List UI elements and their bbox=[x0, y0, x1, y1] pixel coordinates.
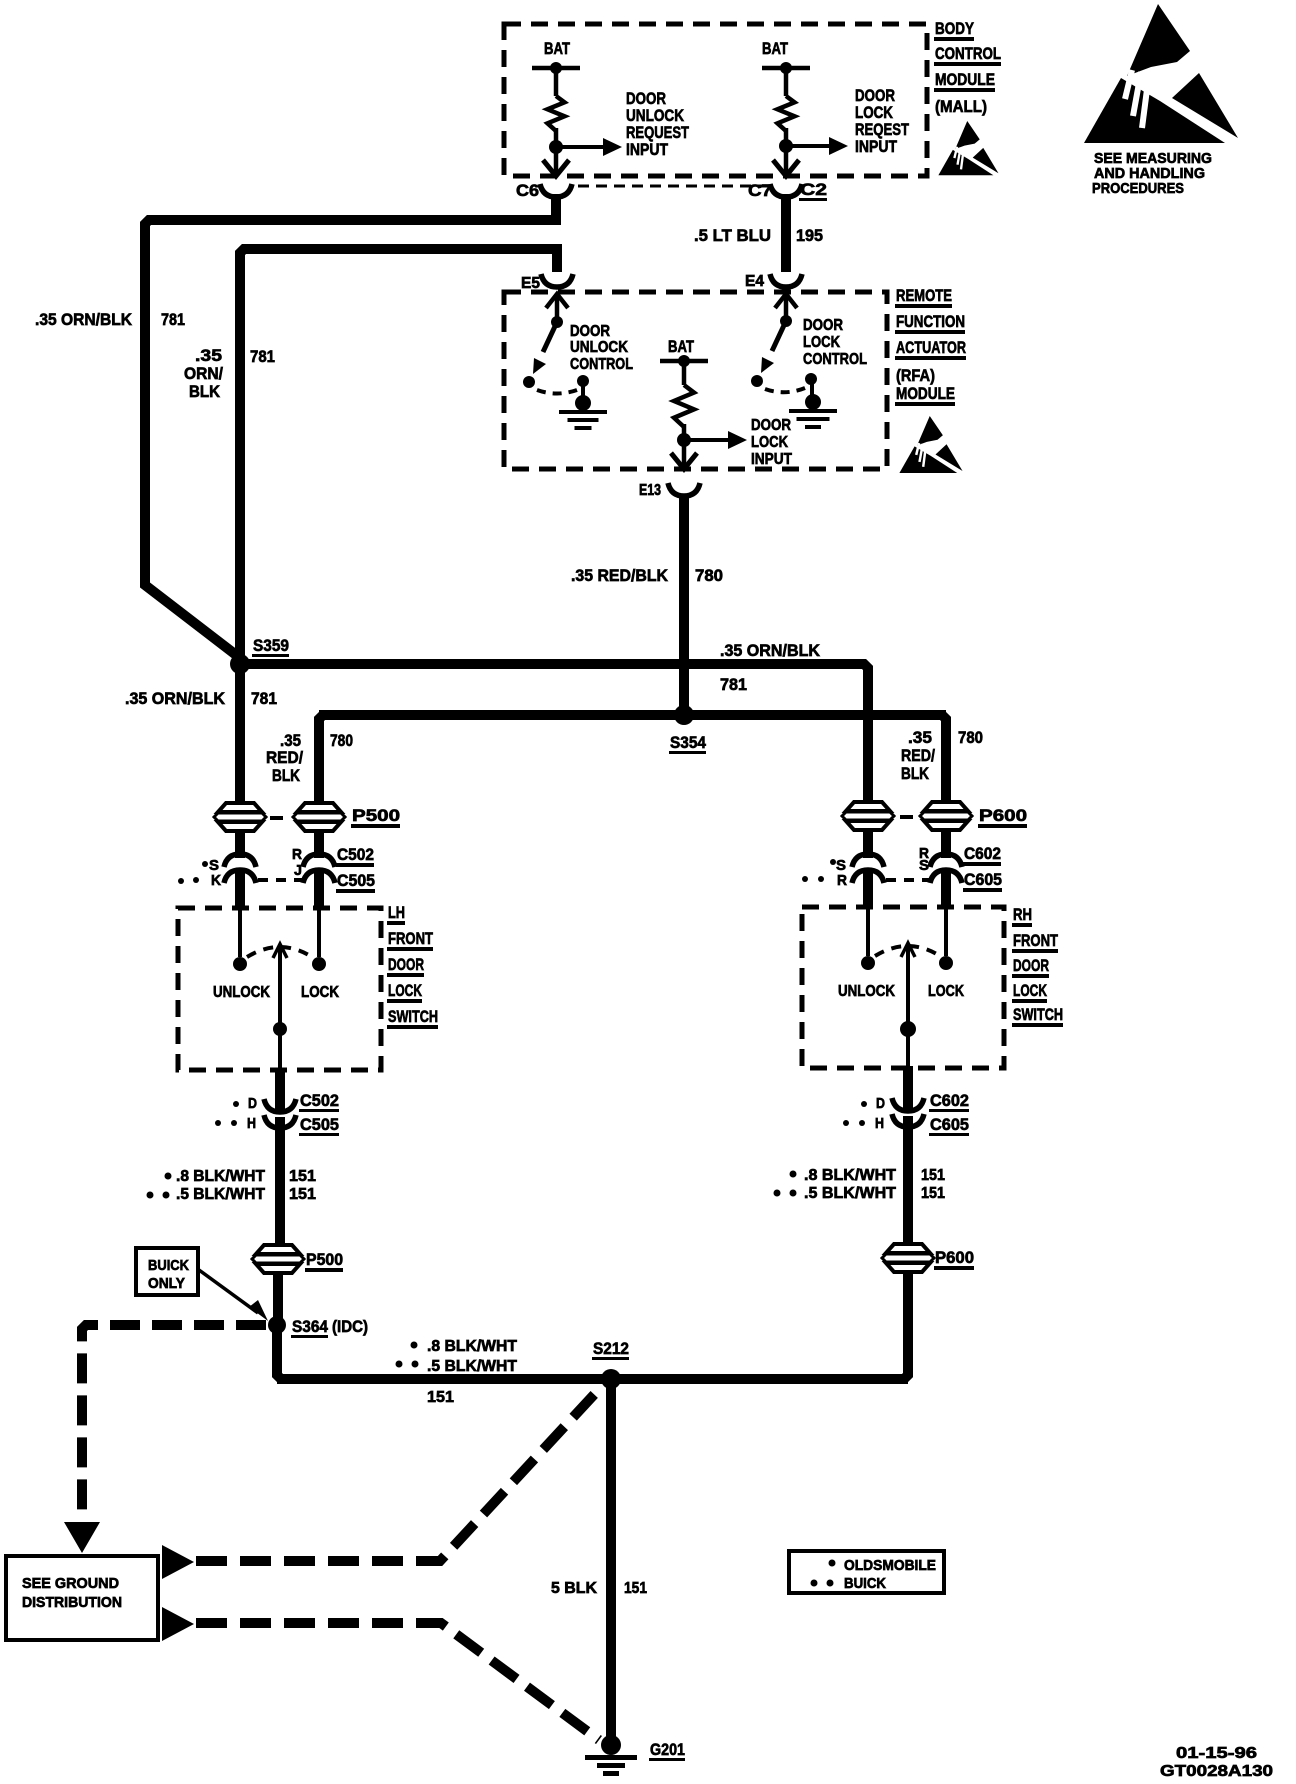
wiper arrow (LH) bbox=[273, 944, 287, 958]
wire: C502 into LH switch (lock) bbox=[314, 870, 324, 908]
terminal UNLOCK (RH) bbox=[861, 956, 875, 970]
ground (lock control) bbox=[805, 394, 821, 410]
pin letters S and R (C502 LH) bbox=[202, 846, 302, 874]
svg-text:FRONT: FRONT bbox=[388, 929, 433, 948]
wire: C602 into RH switch (lock) bbox=[941, 870, 951, 908]
svg-text:GT0028A130: GT0028A130 bbox=[1160, 1763, 1273, 1780]
wire: unlock terminal (RH) bbox=[866, 907, 870, 956]
svg-text:151: 151 bbox=[921, 1185, 945, 1202]
connector C502 pin D (LH common) bbox=[233, 1095, 296, 1112]
label: .8/.5 BLK/WHT (ground run) bbox=[396, 1338, 518, 1375]
connector C7 / C2 bbox=[748, 180, 827, 201]
svg-text:.35 ORN/BLK: .35 ORN/BLK bbox=[720, 641, 821, 660]
svg-text:ORN/: ORN/ bbox=[184, 364, 223, 383]
svg-text:CONTROL: CONTROL bbox=[803, 351, 867, 368]
svg-text:S359: S359 bbox=[253, 636, 289, 655]
svg-text:BAT: BAT bbox=[762, 39, 788, 58]
wire: P500 to C502 (LH lock) bbox=[314, 830, 324, 856]
inline connector P600 (unlock wire) bbox=[842, 802, 894, 830]
svg-text:.35 RED/BLK: .35 RED/BLK bbox=[571, 566, 669, 585]
inline connector P500 (unlock wire) bbox=[214, 803, 266, 831]
label: .35 ORN/BLK 781 (left) bbox=[35, 310, 185, 329]
inline connector P600 (lock wire) with label bbox=[920, 802, 1027, 830]
connector E13 bbox=[639, 482, 700, 499]
svg-text:SWITCH: SWITCH bbox=[1013, 1005, 1063, 1024]
svg-text:RH: RH bbox=[1013, 905, 1032, 924]
svg-text:E5: E5 bbox=[521, 275, 540, 292]
resistor: door lock request pull-up bbox=[778, 96, 795, 131]
svg-text:RED/: RED/ bbox=[266, 748, 303, 767]
module box: LH FRONT DOOR LOCK SWITCH (dashed) bbox=[178, 908, 381, 1070]
svg-text:BLK: BLK bbox=[189, 382, 221, 401]
wire: C6 orn/blk 781 to left side bbox=[145, 194, 556, 664]
wire: ground run 151 across bbox=[277, 1374, 908, 1384]
wire: BAT to resistor (RFA) bbox=[682, 361, 687, 385]
wire: E5 pin to unlock switch pivot bbox=[555, 296, 560, 322]
svg-text:P500: P500 bbox=[352, 806, 400, 825]
wire: E5 orn/blk 781 down to S359 bbox=[240, 249, 557, 664]
node: door lock input junction bbox=[677, 433, 691, 447]
connector E4 bbox=[745, 273, 802, 290]
label: RH FRONT DOOR LOCK SWITCH bbox=[1012, 905, 1063, 1027]
svg-text:S364: S364 bbox=[292, 1317, 328, 1336]
svg-text:ACTUATOR: ACTUATOR bbox=[896, 338, 966, 357]
svg-text:K: K bbox=[211, 872, 221, 889]
wire: P500 to C502 (LH unlock) bbox=[235, 830, 245, 856]
svg-text:(IDC): (IDC) bbox=[332, 1317, 368, 1336]
BAT terminal (RFA) bbox=[660, 337, 708, 367]
svg-text:.35: .35 bbox=[908, 728, 932, 747]
label: .8/.5 BLK/WHT 151 (LH) bbox=[147, 1168, 317, 1203]
svg-text:C505: C505 bbox=[337, 871, 375, 890]
svg-text:C605: C605 bbox=[930, 1115, 969, 1134]
BAT terminal (door lock request branch) bbox=[762, 39, 810, 74]
wire: resistor to node (RFA) bbox=[682, 424, 687, 469]
arrow: door lock request input bbox=[786, 144, 832, 148]
module box: RH FRONT DOOR LOCK SWITCH (dashed) bbox=[802, 907, 1004, 1068]
connector C6 bbox=[516, 181, 572, 200]
wire: resistor to node (unlock request) bbox=[554, 128, 559, 176]
wire: P600 down to ground run bbox=[904, 1271, 908, 1379]
svg-text:780: 780 bbox=[330, 731, 353, 750]
ESD symbol (RFA) bbox=[899, 416, 962, 473]
svg-text:P500: P500 bbox=[306, 1250, 343, 1269]
svg-text:CONTROL: CONTROL bbox=[570, 356, 633, 373]
svg-text:ONLY: ONLY bbox=[148, 1275, 185, 1292]
label: SEE MEASURING AND HANDLING PROCEDURES bbox=[1092, 150, 1212, 197]
switch contact right to ground (unlock control) bbox=[577, 375, 589, 387]
svg-text:781: 781 bbox=[250, 347, 275, 366]
svg-text:INPUT: INPUT bbox=[751, 451, 792, 468]
svg-text:LOCK: LOCK bbox=[928, 983, 964, 1000]
wiper wire (RH) bbox=[906, 946, 910, 1068]
svg-text:C605: C605 bbox=[964, 870, 1002, 889]
wire: P600 to C602 (RH lock) bbox=[941, 829, 951, 856]
mating dash between P500 halves bbox=[270, 816, 283, 820]
wire: E13 red/blk 780 down to S354 bbox=[679, 494, 689, 715]
svg-text:H: H bbox=[247, 1115, 256, 1132]
svg-text:151: 151 bbox=[289, 1168, 316, 1185]
svg-text:.5 BLK/WHT: .5 BLK/WHT bbox=[804, 1185, 896, 1202]
mating dash between P600 halves bbox=[900, 815, 913, 819]
svg-text:5 BLK: 5 BLK bbox=[551, 1580, 597, 1597]
inline connector P500 (Buick splice) bbox=[252, 1245, 343, 1273]
svg-text:MODULE: MODULE bbox=[935, 70, 995, 89]
svg-text:151: 151 bbox=[921, 1167, 945, 1184]
svg-text:.5 BLK/WHT: .5 BLK/WHT bbox=[427, 1358, 517, 1375]
svg-text:S: S bbox=[919, 857, 929, 874]
wiper node (RH) bbox=[900, 1021, 916, 1037]
svg-text:J: J bbox=[294, 862, 302, 879]
pin arrow down at C6 bbox=[543, 160, 569, 176]
svg-text:SWITCH: SWITCH bbox=[388, 1007, 438, 1026]
svg-text:780: 780 bbox=[695, 566, 723, 585]
ground G201 bbox=[585, 1735, 685, 1776]
wire: S212 to G201 (5 BLK 151) bbox=[606, 1379, 616, 1742]
splice S364 (IDC) bbox=[268, 1316, 368, 1338]
svg-text:DISTRIBUTION: DISTRIBUTION bbox=[22, 1594, 122, 1611]
label: .35 ORN/BLK 781 (to RH) bbox=[720, 641, 821, 694]
switch contact left (unlock control) bbox=[523, 376, 535, 388]
svg-text:.5 BLK/WHT: .5 BLK/WHT bbox=[176, 1186, 265, 1203]
module box: REMOTE FUNCTION ACTUATOR (dashed) bbox=[504, 292, 887, 469]
wiper arrow (RH) bbox=[901, 943, 915, 957]
wire: C502 into LH switch (unlock) bbox=[235, 870, 245, 908]
svg-text:UNLOCK: UNLOCK bbox=[570, 339, 628, 356]
connector C505 (LH) pins K/J bbox=[224, 870, 335, 883]
svg-text:.35 ORN/BLK: .35 ORN/BLK bbox=[35, 310, 133, 329]
svg-text:LOCK: LOCK bbox=[803, 334, 840, 351]
arrow: door lock input bbox=[684, 438, 731, 442]
label: .5 LT BLU 195 bbox=[694, 226, 823, 245]
dashed link C505 halves (LH) bbox=[258, 878, 302, 882]
label: .8/.5 BLK/WHT 151 (RH) bbox=[774, 1167, 946, 1202]
label: DOOR UNLOCK REQUEST INPUT bbox=[626, 89, 689, 159]
svg-text:.8 BLK/WHT: .8 BLK/WHT bbox=[804, 1167, 896, 1184]
pin arrow up at E5 bbox=[546, 294, 568, 308]
svg-text:780: 780 bbox=[958, 728, 983, 747]
svg-text:OLDSMOBILE: OLDSMOBILE bbox=[844, 1557, 936, 1574]
svg-text:D: D bbox=[248, 1095, 257, 1112]
svg-text:DOOR: DOOR bbox=[803, 317, 843, 334]
wire: lock terminal (RH) bbox=[944, 907, 948, 956]
svg-text:E13: E13 bbox=[639, 482, 661, 499]
wire: S359 to RH unlock riser (orn/blk 781) bbox=[240, 664, 868, 858]
label: .35 RED/BLK 780 (RH riser) bbox=[901, 728, 983, 783]
callout arrow to S364 bbox=[199, 1270, 258, 1313]
label: .35 ORN/BLK 781 (below S359) bbox=[125, 689, 277, 708]
svg-text:RED/: RED/ bbox=[901, 746, 935, 765]
resistor: door lock input pull-up bbox=[674, 385, 694, 427]
svg-text:151: 151 bbox=[289, 1186, 316, 1203]
ground (unlock control) bbox=[575, 395, 591, 411]
svg-text:INPUT: INPUT bbox=[626, 140, 669, 159]
dashed throw arc (unlock control) bbox=[537, 390, 577, 394]
svg-text:DOOR: DOOR bbox=[388, 955, 424, 974]
svg-text:(RFA): (RFA) bbox=[896, 366, 935, 385]
label: LH FRONT DOOR LOCK SWITCH bbox=[387, 903, 438, 1029]
splice S212 bbox=[592, 1339, 629, 1389]
svg-text:R: R bbox=[837, 872, 847, 889]
svg-text:MODULE: MODULE bbox=[896, 384, 955, 403]
label: DOOR UNLOCK CONTROL bbox=[570, 323, 633, 373]
svg-text:CONTROL: CONTROL bbox=[935, 44, 1001, 63]
label: REMOTE FUNCTION ACTUATOR (RFA) MODULE bbox=[895, 286, 966, 406]
svg-text:.8 BLK/WHT: .8 BLK/WHT bbox=[427, 1338, 517, 1355]
svg-text:C602: C602 bbox=[930, 1091, 969, 1110]
wiper node (LH) bbox=[273, 1022, 287, 1036]
dashed wire: ground distribution to S212 bbox=[196, 1386, 602, 1561]
svg-text:UNLOCK: UNLOCK bbox=[838, 983, 895, 1000]
label: DOOR LOCK REQEST INPUT bbox=[855, 86, 909, 156]
pin arrow down at E13 bbox=[671, 453, 697, 469]
svg-text:151: 151 bbox=[427, 1389, 454, 1406]
wire: S359 down to P500 (orn/blk 781) bbox=[235, 664, 245, 858]
svg-text:R: R bbox=[292, 846, 302, 863]
svg-text:C505: C505 bbox=[300, 1115, 339, 1134]
wire: resistor to node (lock request) bbox=[784, 128, 789, 176]
svg-text:FRONT: FRONT bbox=[1013, 931, 1058, 950]
svg-text:C502: C502 bbox=[337, 845, 374, 864]
arrowhead out (upper) bbox=[162, 1545, 194, 1579]
svg-text:BODY: BODY bbox=[935, 19, 975, 38]
switch contact right to ground (lock control) bbox=[805, 373, 817, 385]
svg-text:781: 781 bbox=[251, 689, 277, 708]
label: .35 RED/BLK 780 (LH riser) bbox=[266, 731, 353, 785]
switch: door lock control pivot bbox=[780, 315, 792, 327]
svg-text:BUICK: BUICK bbox=[844, 1575, 886, 1592]
connector E5 bbox=[521, 274, 573, 292]
connector C505 pin H (LH common) bbox=[215, 1115, 296, 1132]
dashed throw arc (lock control) bbox=[765, 388, 805, 392]
svg-text:C7: C7 bbox=[748, 181, 772, 200]
svg-text:D: D bbox=[876, 1095, 885, 1112]
svg-text:LOCK: LOCK bbox=[301, 984, 339, 1001]
connector C602 (RH) pins S/R bbox=[852, 854, 962, 867]
label: 5 BLK 151 bbox=[551, 1580, 647, 1597]
wire: lock terminal (LH) bbox=[317, 908, 321, 957]
dashed wiper arc (RH) bbox=[875, 946, 940, 956]
module box: BODY CONTROL MODULE (dashed) bbox=[504, 24, 927, 176]
svg-text:195: 195 bbox=[796, 226, 823, 245]
ESD warning logo bbox=[1084, 4, 1238, 143]
legend box: Oldsmobile / Buick bbox=[789, 1551, 944, 1593]
svg-text:BLK: BLK bbox=[272, 766, 301, 785]
wire: C602 into RH switch (unlock) bbox=[863, 870, 873, 908]
svg-text:C6: C6 bbox=[516, 181, 539, 200]
wire: S354 red/blk 780 to both lock risers bbox=[319, 715, 323, 858]
connector C605 (RH) pins R/S bbox=[852, 870, 962, 883]
svg-text:PROCEDURES: PROCEDURES bbox=[1092, 180, 1184, 197]
callout box: SEE GROUND DISTRIBUTION bbox=[6, 1556, 158, 1640]
svg-text:INPUT: INPUT bbox=[855, 137, 898, 156]
svg-text:781: 781 bbox=[161, 310, 185, 329]
wire: unlock terminal (LH) bbox=[238, 908, 242, 957]
wire: LH common blk/wht 151 down to P500 bbox=[275, 1117, 285, 1250]
pin arrow down at C7 bbox=[773, 160, 799, 176]
svg-text:BAT: BAT bbox=[668, 337, 694, 356]
label: BODY CONTROL MODULE (MALL) bbox=[934, 19, 1001, 116]
label: C602 C605 (RH common) bbox=[929, 1091, 969, 1136]
svg-text:BAT: BAT bbox=[544, 39, 570, 58]
inline connector P600 (RH splice) bbox=[882, 1244, 974, 1272]
splice S359 bbox=[230, 636, 289, 674]
svg-text:FUNCTION: FUNCTION bbox=[896, 312, 965, 331]
connector C602 pin D (RH common) bbox=[861, 1095, 924, 1112]
switch blade (unlock control) bbox=[543, 322, 557, 352]
svg-text:BUICK: BUICK bbox=[148, 1257, 189, 1274]
pin arrow up at E4 bbox=[775, 294, 797, 308]
svg-text:.35 ORN/BLK: .35 ORN/BLK bbox=[125, 689, 226, 708]
switch blade (lock control) bbox=[772, 321, 786, 351]
svg-text:.35: .35 bbox=[195, 346, 222, 365]
wire: P600 to C602 (RH unlock) bbox=[863, 829, 873, 856]
svg-text:G201: G201 bbox=[650, 1740, 685, 1759]
svg-text:.5 LT BLU: .5 LT BLU bbox=[694, 226, 771, 245]
wire: P500 to S364 bbox=[273, 1272, 283, 1325]
resistor: door unlock request pull-up bbox=[548, 96, 565, 131]
switch: door unlock control pivot bbox=[551, 316, 563, 328]
svg-text:UNLOCK: UNLOCK bbox=[213, 984, 270, 1001]
dashed link C605 halves (RH) bbox=[886, 878, 930, 882]
svg-text:S212: S212 bbox=[593, 1339, 629, 1358]
svg-text:01-15-96: 01-15-96 bbox=[1176, 1745, 1257, 1762]
arrow: door unlock request input bbox=[556, 145, 606, 149]
svg-text:H: H bbox=[875, 1115, 884, 1132]
wire: RH common blk/wht 151 down to P600 bbox=[903, 1116, 913, 1250]
terminal UNLOCK (LH) bbox=[233, 957, 247, 971]
arrowhead out (lower) bbox=[162, 1607, 194, 1641]
label: C502 C505 (LH common) bbox=[299, 1091, 339, 1136]
svg-text:.8 BLK/WHT: .8 BLK/WHT bbox=[176, 1168, 265, 1185]
connector interface dashed line C2 bbox=[578, 185, 772, 188]
svg-text:SEE GROUND: SEE GROUND bbox=[22, 1575, 119, 1592]
svg-text:P600: P600 bbox=[979, 806, 1027, 825]
svg-text:(MALL): (MALL) bbox=[935, 97, 987, 116]
svg-text:E4: E4 bbox=[745, 273, 764, 290]
dashed wire: ground distribution to G201 bbox=[196, 1623, 599, 1740]
label: C602 C605 (RH) bbox=[963, 844, 1002, 892]
svg-text:DOOR: DOOR bbox=[570, 323, 610, 340]
pin letters S and R (C602 RH) bbox=[830, 845, 929, 874]
svg-text:LOCK: LOCK bbox=[751, 434, 788, 451]
switch contact left (lock control) bbox=[751, 375, 763, 387]
svg-text:151: 151 bbox=[624, 1580, 647, 1597]
label: .35 RED/BLK 780 (E13) bbox=[571, 566, 723, 585]
svg-text:P600: P600 bbox=[935, 1248, 974, 1267]
wire: BAT to resistor (unlock request) bbox=[554, 68, 559, 96]
svg-text:LOCK: LOCK bbox=[1013, 981, 1048, 1000]
svg-text:C602: C602 bbox=[964, 844, 1001, 863]
svg-text:LH: LH bbox=[388, 903, 405, 922]
wire: BAT to resistor (lock request) bbox=[784, 68, 789, 96]
svg-text:LOCK: LOCK bbox=[388, 981, 423, 1000]
dashed wiper arc (LH) bbox=[247, 947, 312, 957]
wire: S364 down to ground run bbox=[277, 1325, 281, 1379]
svg-text:C502: C502 bbox=[300, 1091, 339, 1110]
wiper wire (LH) bbox=[278, 947, 282, 1070]
svg-text:REMOTE: REMOTE bbox=[896, 286, 952, 305]
wire: circuit 195 C7 to E4 bbox=[781, 194, 791, 272]
svg-text:DOOR: DOOR bbox=[1013, 956, 1049, 975]
svg-text:781: 781 bbox=[720, 675, 747, 694]
callout box: BUICK ONLY bbox=[136, 1248, 198, 1295]
arrowhead into ground distribution bbox=[64, 1522, 100, 1553]
label: .35 ORN/BLK 781 (second riser) bbox=[184, 346, 275, 401]
wire: RH switch common down bbox=[903, 1066, 913, 1110]
label: DOOR LOCK CONTROL bbox=[803, 317, 867, 368]
BAT terminal (door unlock request branch) bbox=[532, 39, 580, 74]
connector C605 pin H (RH common) bbox=[843, 1114, 924, 1132]
wire: LH switch common down bbox=[275, 1068, 285, 1111]
svg-text:S354: S354 bbox=[670, 733, 706, 752]
wire: E4 pin to lock switch pivot bbox=[784, 296, 789, 321]
node: door unlock request junction bbox=[549, 140, 563, 154]
terminal LOCK (RH) bbox=[939, 956, 953, 970]
pin letters K and J (C505 LH) bbox=[178, 862, 302, 889]
label: DOOR LOCK INPUT bbox=[751, 417, 792, 468]
svg-text:DOOR: DOOR bbox=[751, 417, 791, 434]
label: drawing date and number bbox=[1160, 1745, 1273, 1780]
splice S354 bbox=[669, 705, 706, 754]
svg-text:BLK: BLK bbox=[901, 764, 930, 783]
svg-text:C2: C2 bbox=[800, 180, 827, 199]
terminal LOCK (LH) bbox=[312, 957, 326, 971]
inline connector P500 (lock wire) with label bbox=[293, 803, 400, 831]
label: C502 C505 (LH) bbox=[336, 845, 375, 893]
connector C502 (LH) pins S/R bbox=[224, 854, 335, 867]
ESD symbol (BCM) bbox=[938, 121, 998, 175]
dashed wire: S364 Buick only to ground distribution bbox=[82, 1325, 266, 1521]
pin letters R and S (C605 RH) bbox=[802, 857, 929, 889]
node: door lock request junction bbox=[779, 139, 793, 153]
